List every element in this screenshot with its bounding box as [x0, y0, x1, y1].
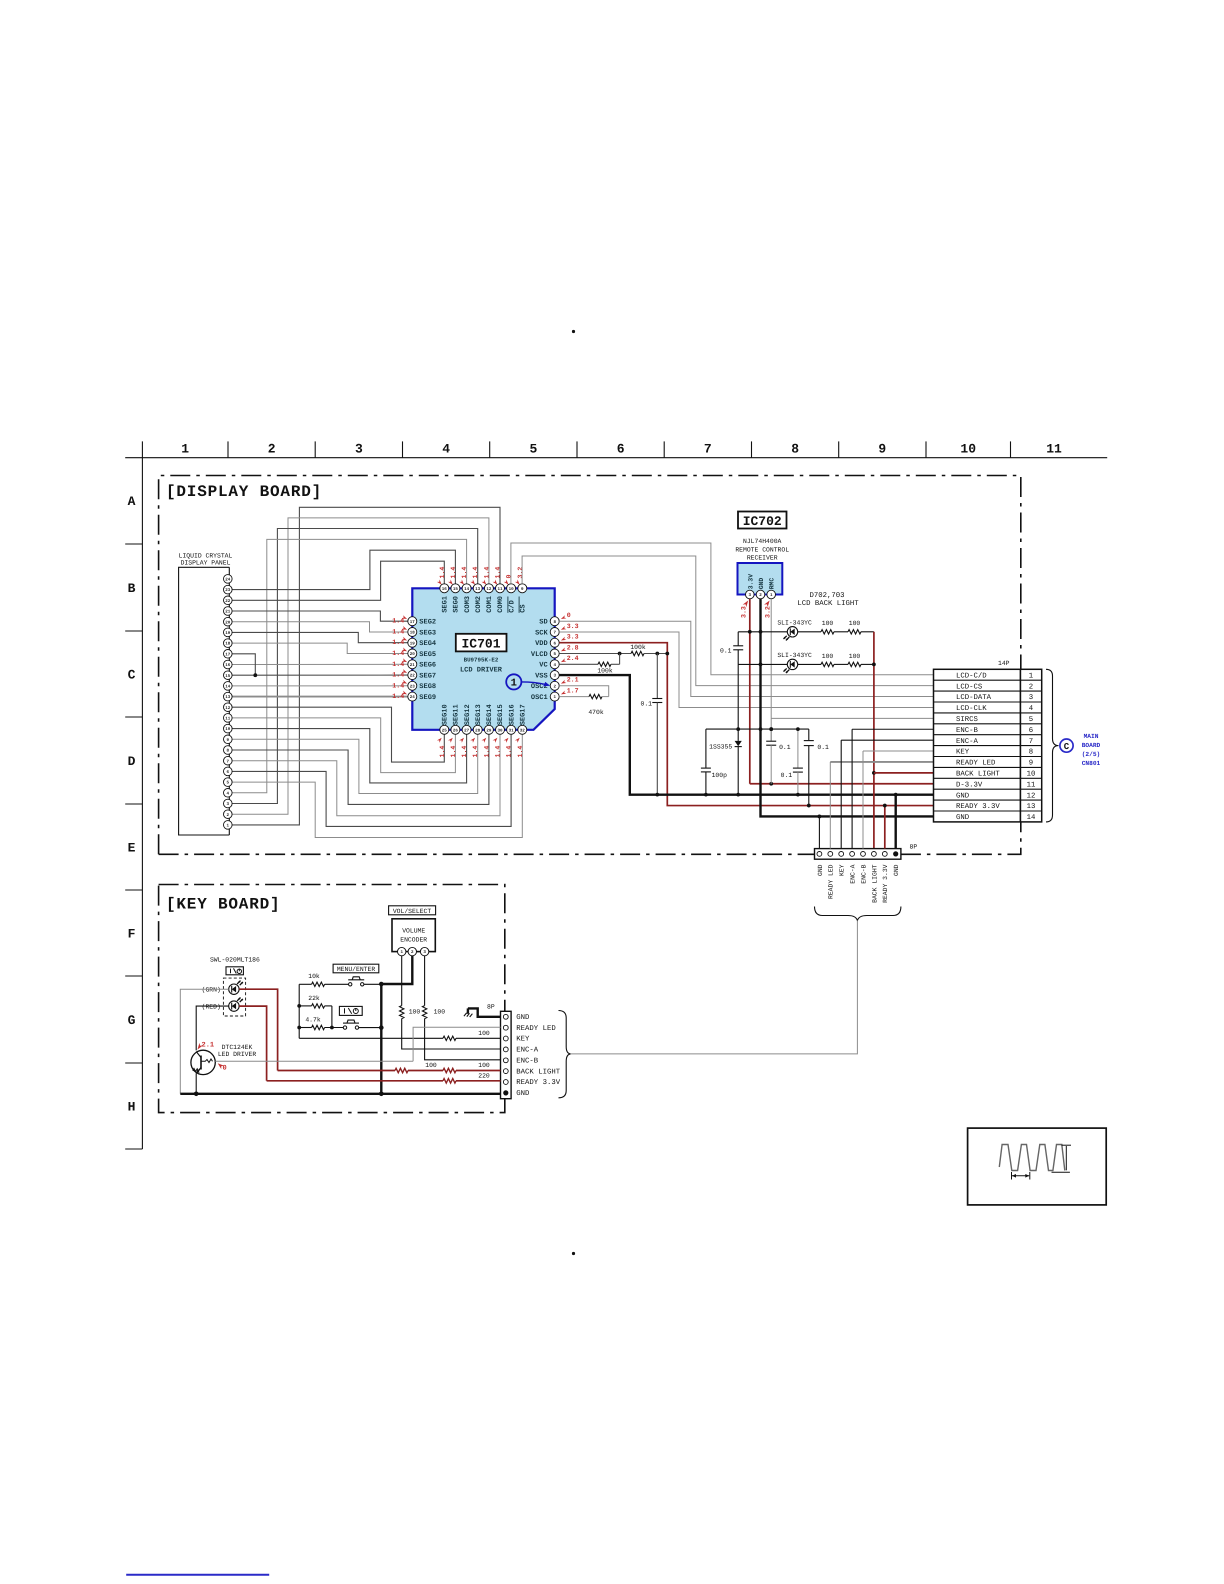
- wire IC702 GND down to CN row 14: [761, 599, 934, 816]
- svg-text:ENCODER: ENCODER: [400, 937, 427, 944]
- svg-text:11: 11: [225, 717, 231, 722]
- junction cap2/READY 3.3V row: [807, 804, 811, 808]
- registration dot top: [572, 330, 575, 333]
- svg-text:D: D: [128, 754, 136, 769]
- svg-text:1: 1: [1029, 672, 1034, 680]
- wire GND row14 to 8P pin 1: [818, 816, 820, 848]
- red arrow at IC701 pin 30: [493, 737, 499, 743]
- panel pin 12: [224, 703, 233, 712]
- svg-text:100: 100: [478, 1030, 490, 1037]
- row tick 5: [125, 889, 142, 891]
- svg-text:RECEIVER: RECEIVER: [747, 555, 778, 562]
- wire encoder pin 2 to GND rail: [381, 956, 412, 984]
- svg-text:SD: SD: [539, 619, 547, 627]
- 8P pin 1: [817, 852, 822, 857]
- svg-text:1.4: 1.4: [392, 661, 404, 668]
- row tick 3: [125, 716, 142, 718]
- IC701 pin 3: [550, 671, 559, 680]
- svg-text:19: 19: [225, 631, 231, 636]
- key 8P pin 7: [503, 1080, 508, 1085]
- svg-text:READY 3.3V: READY 3.3V: [956, 803, 1000, 811]
- svg-text:READY LED: READY LED: [828, 864, 835, 899]
- svg-text:1: 1: [181, 442, 189, 457]
- ruler tick 8: [838, 441, 840, 457]
- red arrow at IC701 pin 19: [402, 637, 408, 642]
- wire GND row12 to 8P pin 8: [895, 795, 897, 849]
- connector CN 14P box: [934, 669, 1042, 822]
- wire OSC2 loop: [559, 686, 609, 697]
- wire key ladder rail: [298, 984, 300, 1038]
- IC702 pin 3: [746, 590, 755, 599]
- IC701 pin 4: [550, 660, 559, 669]
- resistor 22k: [312, 1004, 325, 1008]
- red arrow at IC701 pin 25: [437, 737, 443, 743]
- red arrow at Q collector: [196, 1043, 203, 1051]
- panel pin 18: [224, 639, 233, 648]
- svg-text:1SS355: 1SS355: [709, 744, 732, 751]
- red arrow at IC701 VC: [560, 658, 566, 663]
- wire 4.7k right: [325, 1027, 344, 1029]
- svg-text:1.4: 1.4: [472, 746, 479, 758]
- svg-text:1.7: 1.7: [567, 687, 579, 694]
- svg-text:30: 30: [497, 728, 503, 733]
- junction GND/lower rail: [759, 663, 763, 667]
- wire cap1 lower: [770, 745, 772, 784]
- wire 4.7k left: [299, 1027, 311, 1029]
- svg-text:C: C: [1064, 742, 1070, 752]
- row tick 1: [125, 543, 142, 545]
- svg-text:REMOTE CONTROL: REMOTE CONTROL: [735, 547, 789, 554]
- wire SEG17: panel pin 5 to IC701 pin 32: [232, 734, 522, 837]
- svg-text:B: B: [128, 581, 136, 596]
- wire D703 to resistor: [798, 663, 821, 665]
- svg-text:GND: GND: [817, 864, 824, 876]
- wire encoder pin 3 down: [424, 956, 426, 1006]
- svg-text:SEG9: SEG9: [419, 694, 436, 702]
- IC701 pin 24: [408, 692, 417, 701]
- key 8P pin 8 (filled): [503, 1090, 508, 1095]
- svg-text:100k: 100k: [630, 644, 646, 651]
- resistor 4.7k: [312, 1025, 325, 1029]
- svg-text:IC701: IC701: [461, 636, 500, 651]
- wire SEG15: panel pin 7 to IC701 pin 30: [232, 734, 500, 816]
- wire OSC1: [559, 696, 589, 698]
- wire IC702 3.3V down to D-3.3V row: [749, 599, 751, 784]
- svg-text:VLCD: VLCD: [531, 651, 548, 659]
- key 8P pin 3: [503, 1036, 508, 1041]
- wire cap2 lower: [808, 746, 810, 806]
- svg-text:13: 13: [475, 587, 481, 592]
- red arrow at IC701 pin 12: [482, 580, 488, 586]
- diode GRN LED (keyboard): [229, 981, 243, 995]
- wire GRN anode to BACK LIGHT row: [239, 989, 278, 1070]
- resistor 100 (BACK LIGHT b): [443, 1068, 456, 1072]
- red arrow at IC701 pin 18: [402, 626, 408, 631]
- panel pin 13: [224, 692, 233, 701]
- svg-text:LED DRIVER: LED DRIVER: [218, 1051, 257, 1058]
- svg-text:LCD DRIVER: LCD DRIVER: [460, 667, 503, 675]
- svg-text:14P: 14P: [998, 660, 1010, 667]
- svg-text:DISPLAY PANEL: DISPLAY PANEL: [181, 560, 231, 567]
- junction 22k/4.7k/switch: [330, 1026, 334, 1030]
- svg-text:17: 17: [225, 652, 231, 657]
- diode D702 LED SLI-343YC: [784, 627, 798, 641]
- svg-text:100: 100: [849, 653, 861, 660]
- 8P pin 3: [839, 852, 844, 857]
- capacitor 0.1 (rail to READY 3.3V): [804, 741, 814, 746]
- connector 8P display board box: [815, 849, 901, 860]
- svg-text:100: 100: [849, 620, 861, 627]
- junction 1SS355/GND rail: [736, 727, 740, 731]
- wire READY 3.3V to 8P pin 7: [884, 806, 886, 849]
- circled C main board reference: [1060, 739, 1073, 752]
- resistor 100 (ENC-A): [400, 1006, 404, 1019]
- svg-text:NJL74H400A: NJL74H400A: [743, 538, 782, 545]
- svg-text:KEY: KEY: [839, 864, 846, 876]
- wire ENC-B col to 8P pin 4: [851, 729, 853, 848]
- wire SEG10: panel pin 12 to IC701 pin 25: [232, 707, 444, 762]
- junction GND vertical/GND bus: [379, 1092, 384, 1097]
- wire SEG9: panel pin 13 to IC701 pin 24: [232, 696, 408, 698]
- IC701 pin 10: [507, 584, 516, 593]
- capacitor 0.1 (IC702): [733, 646, 743, 650]
- svg-text:ENC-A: ENC-A: [850, 864, 857, 883]
- panel pin 11: [224, 714, 233, 723]
- red arrow at IC701 SCK: [560, 626, 566, 631]
- svg-text:SLI-343YC: SLI-343YC: [777, 619, 812, 626]
- svg-text:3.2: 3.2: [517, 567, 524, 579]
- ruler tick 2: [314, 441, 316, 457]
- wire to CN row 7: [841, 739, 933, 741]
- red arrow at IC701 pin 24: [402, 691, 408, 696]
- panel pin 21: [224, 607, 233, 616]
- wire GND rail horizontal: [706, 728, 809, 730]
- svg-text:11: 11: [497, 587, 503, 592]
- svg-text:1.4: 1.4: [392, 629, 404, 636]
- red arrow at IC701 pin 26: [448, 737, 454, 743]
- junction GND/LED rail: [759, 630, 763, 634]
- svg-text:ENC-B: ENC-B: [956, 727, 979, 735]
- wire READY 3.3V row right: [456, 1080, 501, 1082]
- junction 3.3V/LED rail: [748, 630, 752, 634]
- red arrow at IC701 pin 10: [504, 580, 510, 586]
- wire 10k to MENU switch left: [299, 983, 311, 985]
- svg-text:13: 13: [225, 695, 231, 700]
- wire Q base from READY LED net: [215, 1060, 413, 1062]
- svg-text:GND: GND: [516, 1090, 530, 1098]
- wire I/O switch to GND rail: [359, 1027, 382, 1029]
- svg-text:12: 12: [1027, 792, 1036, 800]
- IC701 pin 18: [408, 628, 417, 637]
- panel pin 2: [224, 810, 233, 819]
- wire RED cathode to Q collector: [196, 1006, 229, 1050]
- junction cap/GND bus: [655, 793, 659, 797]
- wire VLCD cap upper: [656, 654, 658, 699]
- page column ruler line: [125, 457, 1107, 459]
- junction VLCD/VC: [618, 652, 622, 656]
- 8P pin 7: [882, 852, 887, 857]
- svg-text:10: 10: [960, 442, 976, 457]
- red arrow at IC701 VDD: [560, 637, 566, 642]
- junction 1SS355/GND bus: [736, 793, 740, 797]
- red arrow at IC702 pin 1: [764, 599, 771, 607]
- switch MENU/ENTER: [348, 977, 364, 986]
- svg-text:3: 3: [355, 442, 363, 457]
- svg-text:22k: 22k: [308, 995, 320, 1002]
- wire Q emitter to GND bus: [195, 1073, 197, 1094]
- svg-text:SEG6: SEG6: [419, 662, 436, 670]
- row tick 6: [125, 975, 142, 977]
- waveform trace: [999, 1145, 1065, 1171]
- wire READY LED to 8P pin 2: [829, 762, 831, 849]
- junction I/O switch/GND: [379, 1025, 384, 1030]
- svg-text:220: 220: [478, 1073, 490, 1080]
- 8P pin 4: [850, 852, 855, 857]
- wire SIRCS to CN row 5: [771, 717, 933, 719]
- resistor 470k (OSC): [589, 694, 602, 698]
- svg-text:SEG8: SEG8: [419, 683, 436, 691]
- svg-text:1.4: 1.4: [495, 746, 502, 758]
- svg-text:[KEY BOARD]: [KEY BOARD]: [166, 896, 280, 914]
- junction cap1/GND rail: [769, 727, 773, 731]
- panel pin 22: [224, 596, 233, 605]
- svg-text:1.4: 1.4: [461, 567, 468, 579]
- red arrow at IC701 pin 23: [402, 680, 408, 685]
- svg-text:BACK LIGHT: BACK LIGHT: [871, 864, 878, 903]
- svg-text:KEY: KEY: [516, 1036, 530, 1044]
- panel pin 10: [224, 724, 233, 733]
- wire SEG4: panel pin 19 to IC701 pin 19: [232, 632, 408, 642]
- wire LCD-CLK from IC701 SCK to CN row 4: [559, 632, 933, 707]
- svg-text:8P: 8P: [487, 1004, 495, 1011]
- panel pin 20: [224, 617, 233, 626]
- panel pin 17: [224, 650, 233, 659]
- panel pin 23: [224, 585, 233, 594]
- IC701 pin 20: [408, 649, 417, 658]
- junction row14/8P pin1: [818, 815, 822, 819]
- svg-text:100p: 100p: [712, 772, 728, 779]
- volume encoder box: [392, 919, 435, 952]
- svg-text:LCD-CS: LCD-CS: [956, 683, 983, 691]
- resistor 100 (BACK LIGHT a): [395, 1068, 408, 1072]
- svg-text:470k: 470k: [588, 709, 604, 716]
- capacitor 0.1 (rail to D-3.3V): [766, 741, 776, 745]
- svg-text:0.1: 0.1: [781, 772, 793, 779]
- wire BACK LIGHT row mid: [408, 1070, 443, 1072]
- svg-text:6: 6: [617, 442, 625, 457]
- wire SEG7: panel pin 15 to IC701 pin 22: [232, 674, 408, 676]
- IC701 pin 30: [496, 725, 505, 734]
- wire to BACK LIGHT net upper: [861, 631, 874, 633]
- row tick 7: [125, 1062, 142, 1064]
- svg-text:7: 7: [704, 442, 712, 457]
- switch I/O (power): [343, 1020, 359, 1029]
- svg-text:SEG5: SEG5: [419, 651, 436, 659]
- svg-text:3: 3: [1029, 694, 1033, 702]
- wire COM0: IC701 pin 11 to panel pin 1: [232, 507, 500, 825]
- svg-text:27: 27: [464, 728, 470, 733]
- junction rail/22k: [297, 1004, 301, 1008]
- brace right of key 8P labels: [559, 1011, 571, 1098]
- svg-text:READY LED: READY LED: [516, 1025, 556, 1033]
- wire 100p lower: [705, 772, 707, 795]
- wire GRN cathode to GND bus: [180, 989, 228, 1094]
- svg-text:9: 9: [878, 442, 886, 457]
- svg-text:1: 1: [511, 678, 517, 690]
- svg-text:1.4: 1.4: [392, 650, 404, 657]
- svg-text:19: 19: [410, 641, 416, 646]
- svg-text:BU9795K-E2: BU9795K-E2: [464, 657, 499, 664]
- waveform amplitude dimension: [1052, 1145, 1072, 1172]
- svg-text:SWL-020MLT186: SWL-020MLT186: [210, 957, 260, 964]
- red arrow at Q base: [216, 1062, 224, 1070]
- IC701 pin 6: [550, 638, 559, 647]
- junction VLCD/VDD: [665, 652, 669, 656]
- panel pin 6: [224, 767, 233, 776]
- row tick 4: [125, 803, 142, 805]
- svg-text:100: 100: [425, 1062, 437, 1069]
- red arrow at IC701 pin 27: [459, 737, 465, 743]
- svg-text:18: 18: [225, 642, 231, 647]
- junction IC702 GND/GND rail: [759, 727, 763, 731]
- svg-text:5: 5: [529, 442, 537, 457]
- svg-text:3.2: 3.2: [764, 606, 771, 618]
- svg-text:14: 14: [225, 685, 231, 690]
- svg-text:D702,703: D702,703: [809, 592, 844, 600]
- svg-text:(2/5): (2/5): [1082, 751, 1101, 758]
- resistor 100 (D702 a): [821, 630, 834, 634]
- wire key board GND vertical: [380, 984, 382, 1094]
- svg-text:SEG1: SEG1: [442, 596, 450, 613]
- IC701 pin 23: [408, 681, 417, 690]
- svg-text:VSS: VSS: [535, 673, 548, 681]
- wire D702 to resistor: [798, 631, 821, 633]
- row tick 8: [125, 1148, 142, 1150]
- svg-text:6: 6: [1029, 727, 1033, 735]
- IC701 pin 9: [518, 584, 527, 593]
- wire stub panel pin 17 tie to pin 15: [232, 654, 255, 675]
- svg-text:23: 23: [410, 684, 416, 689]
- svg-text:SEG3: SEG3: [419, 629, 436, 637]
- wire cap2 upper: [808, 729, 810, 740]
- panel pin 5: [224, 778, 233, 787]
- junction encoder/MENU switch/GND: [379, 982, 384, 987]
- ruler tick 5: [576, 441, 578, 457]
- svg-text:BOARD: BOARD: [1082, 742, 1101, 749]
- resistor 100k (VC): [598, 662, 611, 666]
- key 8P pin 4: [503, 1047, 508, 1052]
- svg-text:LCD-CLK: LCD-CLK: [956, 705, 987, 713]
- wire SEG5: panel pin 18 to IC701 pin 20: [232, 643, 408, 653]
- wire LED rail lower: [738, 663, 787, 665]
- junction D703 chain/BACK LIGHT: [872, 663, 876, 667]
- brace right of 14P: [1046, 669, 1059, 822]
- volume encoder pin 3: [420, 947, 428, 955]
- svg-text:1.4: 1.4: [392, 693, 404, 700]
- svg-text:LCD-C/D: LCD-C/D: [956, 671, 987, 680]
- svg-text:21: 21: [410, 663, 416, 668]
- svg-text:20: 20: [225, 620, 231, 625]
- svg-text:14: 14: [464, 587, 470, 592]
- svg-text:SEG16: SEG16: [508, 704, 516, 725]
- svg-text:11: 11: [1027, 781, 1036, 789]
- svg-text:VC: VC: [539, 662, 547, 670]
- capacitor 100p: [701, 768, 711, 772]
- svg-text:CN801: CN801: [1082, 760, 1101, 767]
- svg-text:8: 8: [1029, 749, 1033, 757]
- svg-text:3.3: 3.3: [741, 606, 748, 618]
- svg-text:1.4: 1.4: [495, 567, 502, 579]
- svg-text:IC702: IC702: [743, 514, 782, 529]
- wire LCD-CS from IC701 pin 9 to CN row 2: [522, 556, 933, 686]
- svg-text:2.1: 2.1: [202, 1042, 215, 1050]
- svg-text:GND: GND: [758, 578, 765, 590]
- svg-text:COM3: COM3: [464, 596, 472, 613]
- svg-text:11: 11: [1046, 442, 1062, 457]
- svg-text:SEG10: SEG10: [442, 704, 450, 725]
- svg-text:10: 10: [1027, 770, 1036, 778]
- svg-text:SCK: SCK: [535, 629, 548, 637]
- red arrow at IC701 pin 28: [470, 737, 476, 743]
- IC701 reference label box: [456, 634, 507, 652]
- svg-text:8P: 8P: [910, 843, 918, 850]
- svg-text:12: 12: [225, 706, 231, 711]
- VOL/SELECT label box: [389, 906, 436, 915]
- key 8P pin 6: [503, 1069, 508, 1074]
- svg-text:RMC: RMC: [769, 578, 776, 590]
- svg-text:100: 100: [822, 620, 834, 627]
- IC701 pin 25: [440, 725, 449, 734]
- svg-text:0.1: 0.1: [640, 701, 652, 708]
- wire READY 3.3V row left: [267, 1080, 443, 1082]
- svg-text:SEG4: SEG4: [419, 640, 436, 648]
- svg-text:24: 24: [410, 695, 416, 700]
- panel pin 19: [224, 628, 233, 637]
- wire between 100 resistors upper: [834, 631, 848, 633]
- svg-text:1.4: 1.4: [392, 682, 404, 689]
- wire LCD-C/D from IC701 pin 10 to CN row 1: [511, 543, 934, 675]
- panel pin 7: [224, 756, 233, 765]
- svg-text:100k: 100k: [597, 668, 613, 675]
- svg-text:C: C: [128, 668, 136, 683]
- IC701 pin 14: [462, 584, 471, 593]
- svg-text:2: 2: [1029, 683, 1033, 691]
- svg-text:VOLUME: VOLUME: [402, 928, 425, 935]
- svg-text:1.4: 1.4: [439, 746, 446, 758]
- svg-text:LCD BACK LIGHT: LCD BACK LIGHT: [797, 600, 859, 608]
- svg-text:SEG7: SEG7: [419, 673, 436, 681]
- wire VC from IC701: [559, 663, 598, 665]
- svg-text:4: 4: [1029, 705, 1034, 713]
- wire READY LED to key 8P row 2: [413, 1027, 500, 1061]
- svg-text:1.4: 1.4: [439, 567, 446, 579]
- junction cap3/GND bus: [796, 793, 800, 797]
- svg-text:10: 10: [225, 727, 231, 732]
- svg-text:26: 26: [453, 728, 459, 733]
- svg-text:1.4: 1.4: [517, 746, 524, 758]
- wire LED rail upper: [738, 631, 787, 633]
- svg-text:15: 15: [453, 587, 459, 592]
- svg-text:17: 17: [410, 620, 416, 625]
- svg-text:1.4: 1.4: [472, 567, 479, 579]
- svg-text:2: 2: [268, 442, 276, 457]
- junction row12/8P pin8: [894, 793, 898, 797]
- red arrow at IC701 pin 17: [402, 615, 408, 620]
- svg-text:ENC-A: ENC-A: [956, 738, 979, 746]
- diode 1SS355: [735, 741, 742, 746]
- svg-text:1.4: 1.4: [483, 567, 490, 579]
- svg-text:SEG14: SEG14: [486, 704, 494, 725]
